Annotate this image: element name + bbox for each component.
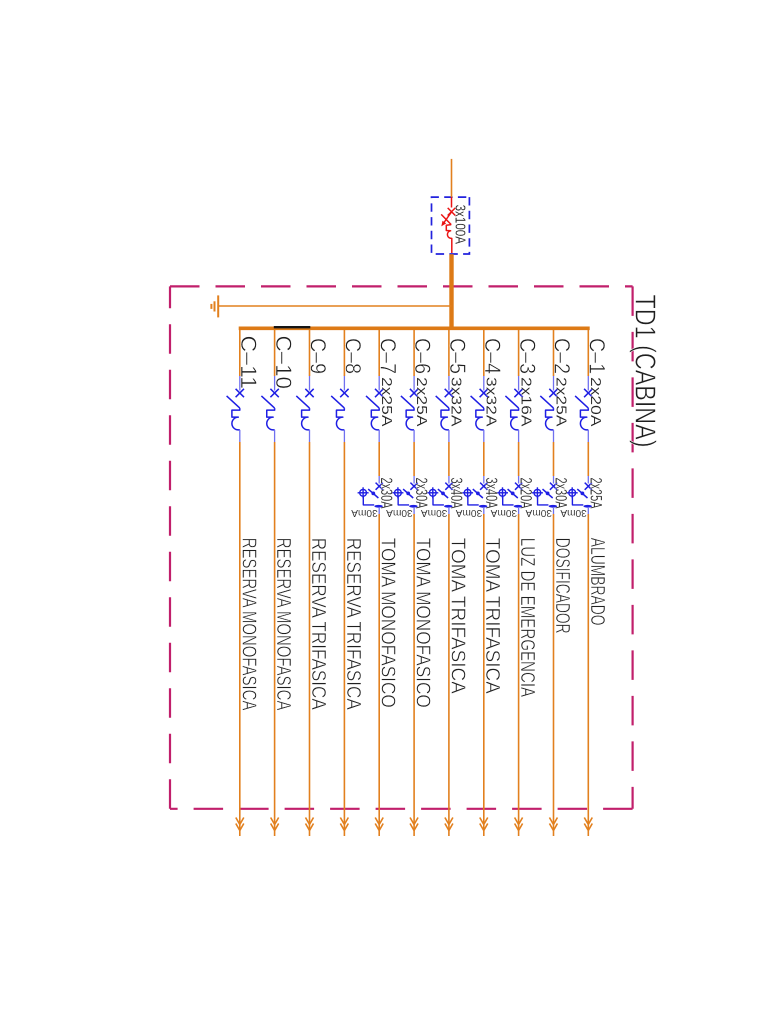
svg-text:C–4: C–4 — [480, 338, 505, 374]
svg-text:LUZ DE EMERGENCIA: LUZ DE EMERGENCIA — [516, 538, 539, 697]
svg-text:C–6: C–6 — [410, 338, 435, 374]
svg-text:C–3: C–3 — [515, 338, 540, 374]
svg-text:C–9: C–9 — [306, 338, 331, 374]
svg-text:C–7: C–7 — [375, 338, 400, 374]
svg-text:2x30A: 2x30A — [412, 478, 431, 509]
svg-text:TOMA MONOFASICO: TOMA MONOFASICO — [412, 538, 435, 708]
svg-text:RESERVA TRIFASICA: RESERVA TRIFASICA — [342, 538, 365, 710]
svg-text:30mA: 30mA — [351, 507, 378, 519]
svg-text:C–5: C–5 — [445, 338, 470, 374]
svg-text:3x32A: 3x32A — [448, 377, 465, 427]
svg-text:ALUMBRADO: ALUMBRADO — [586, 538, 609, 626]
svg-text:C–2: C–2 — [550, 338, 575, 374]
svg-text:30mA: 30mA — [421, 507, 448, 519]
svg-text:2x30A: 2x30A — [377, 478, 396, 509]
svg-text:2x20A: 2x20A — [587, 377, 604, 427]
svg-text:TOMA TRIFASICA: TOMA TRIFASICA — [481, 538, 504, 694]
svg-text:TOMA MONOFASICO: TOMA MONOFASICO — [377, 538, 400, 708]
svg-text:2x25A: 2x25A — [413, 377, 430, 427]
svg-text:2x25A: 2x25A — [586, 478, 605, 509]
svg-text:30mA: 30mA — [386, 507, 413, 519]
svg-text:3x100A: 3x100A — [451, 205, 467, 245]
svg-text:3x40A: 3x40A — [482, 478, 501, 509]
svg-text:DOSIFICADOR: DOSIFICADOR — [551, 538, 574, 634]
svg-text:TOMA TRIFASICA: TOMA TRIFASICA — [446, 538, 469, 694]
svg-text:2x25A: 2x25A — [552, 377, 569, 427]
svg-text:2x25A: 2x25A — [378, 377, 395, 427]
svg-text:C–10: C–10 — [271, 336, 296, 390]
svg-text:2x16A: 2x16A — [517, 377, 534, 427]
svg-text:C–11: C–11 — [236, 336, 261, 390]
svg-text:30mA: 30mA — [491, 507, 517, 519]
svg-text:TD1 (CABINA): TD1 (CABINA) — [629, 295, 661, 448]
svg-text:2x30A: 2x30A — [552, 478, 571, 509]
svg-text:3x32A: 3x32A — [483, 377, 500, 427]
svg-text:RESERVA MONOFASICA: RESERVA MONOFASICA — [237, 538, 260, 711]
svg-text:30mA: 30mA — [526, 507, 553, 519]
svg-text:RESERVA MONOFASICA: RESERVA MONOFASICA — [272, 538, 295, 711]
svg-text:2x20A: 2x20A — [517, 478, 536, 509]
svg-text:C–8: C–8 — [341, 338, 366, 374]
svg-text:30mA: 30mA — [560, 507, 587, 519]
svg-text:C–1: C–1 — [585, 338, 610, 374]
svg-text:RESERVA TRIFASICA: RESERVA TRIFASICA — [307, 538, 330, 710]
svg-text:30mA: 30mA — [456, 507, 483, 519]
svg-text:3x40A: 3x40A — [447, 478, 466, 509]
